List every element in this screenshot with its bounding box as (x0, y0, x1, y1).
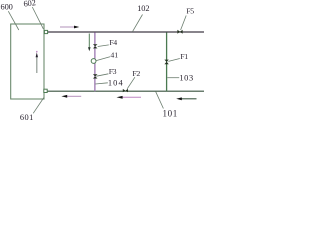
svg-text:F3: F3 (109, 67, 117, 76)
svg-text:F2: F2 (132, 69, 140, 78)
svg-text:F4: F4 (109, 38, 117, 47)
svg-text:601: 601 (20, 113, 34, 120)
svg-text:41: 41 (110, 51, 118, 60)
svg-text:104: 104 (108, 79, 124, 88)
svg-text:602: 602 (23, 0, 36, 9)
svg-text:102: 102 (137, 4, 149, 13)
svg-text:600: 600 (1, 3, 13, 12)
svg-text:103: 103 (179, 73, 193, 82)
svg-text:101: 101 (163, 109, 178, 119)
svg-text:F1: F1 (180, 52, 188, 61)
svg-text:F5: F5 (186, 7, 194, 16)
